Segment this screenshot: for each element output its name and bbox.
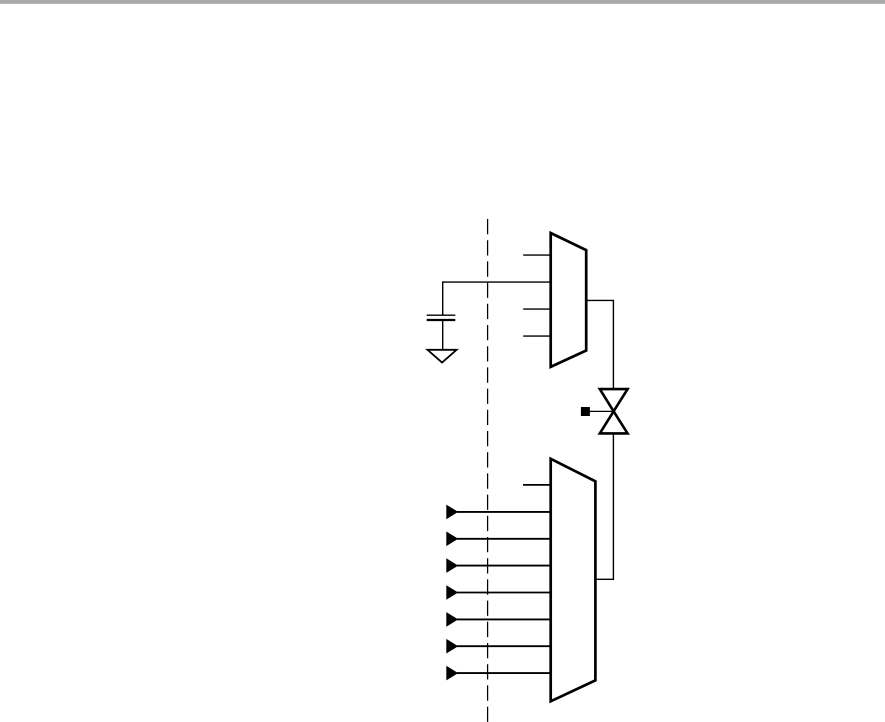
wire: mux U1 input stub 4 [523,335,551,337]
wire: mux U1 input stub 3 [523,308,551,310]
wire: mux U1 input stub 1 [523,254,551,256]
input pin 4 [446,585,550,600]
mux U2 [551,459,596,702]
mux U1 [551,233,587,367]
input pin 5 [446,612,550,627]
wire: capacitor bottom lead [442,320,444,350]
input pin 1 [446,505,550,520]
wire: mux U1 output to switch [586,300,613,389]
input pin 7 [446,666,550,681]
input pin 6 [446,639,550,654]
wire: cap node to mux U1 input 2 [443,281,551,283]
wire: capacitor top lead [442,281,444,315]
wire: mux U2 control stub [523,484,551,486]
input pin 2 [446,532,550,547]
wire: switch to mux U2 output [595,433,613,579]
input pin 3 [446,558,550,573]
boundary dashed line [487,219,489,722]
ground [428,350,457,363]
capacitor C1 [427,315,456,320]
switch S1 (analog pass gate) [600,389,628,433]
wire: switch control [589,410,613,412]
switch control terminal square [581,407,590,416]
